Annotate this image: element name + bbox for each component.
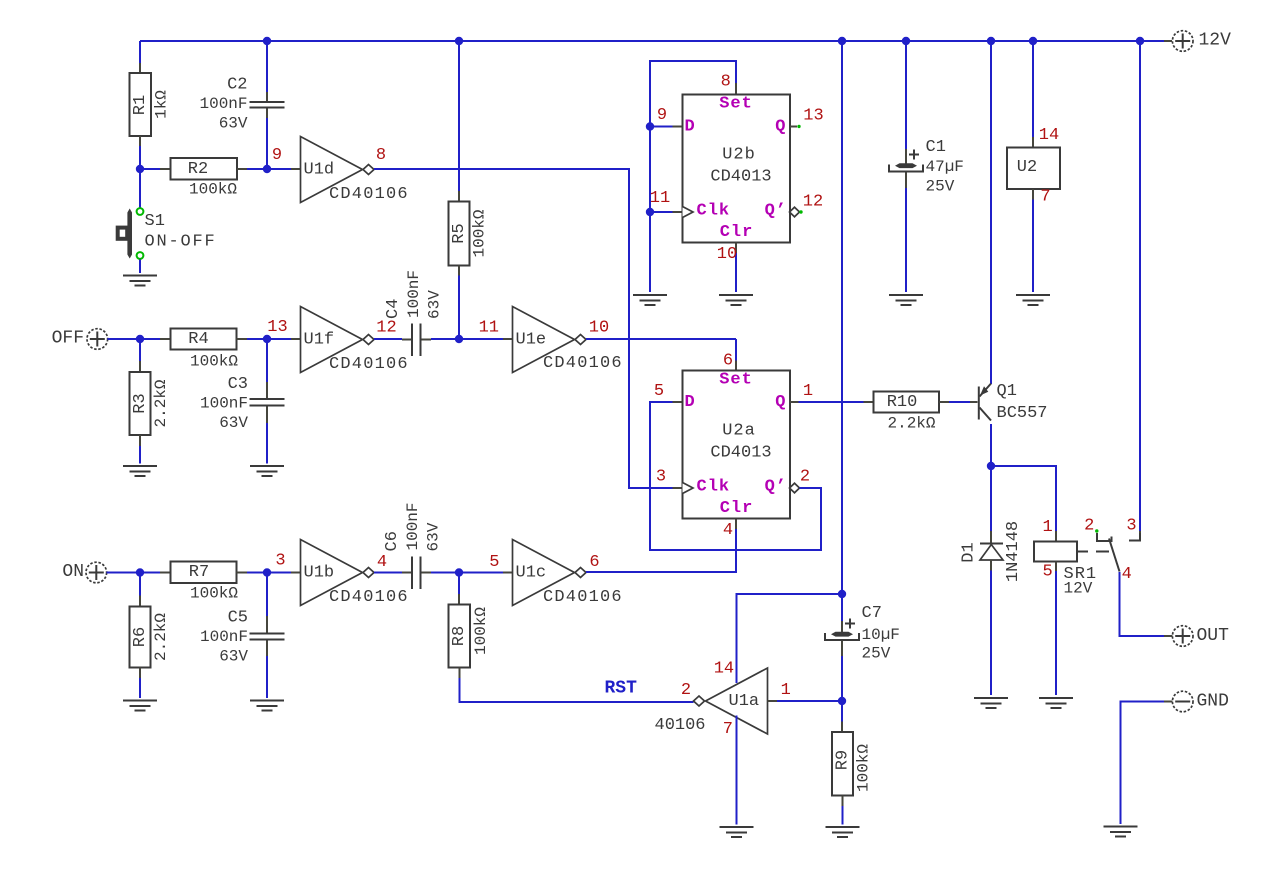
ground below SR1 coil — [1039, 698, 1073, 708]
svg-text:C5: C5 — [228, 609, 248, 628]
wire C1 top drop — [905, 41, 907, 149]
svg-text:13: 13 — [803, 107, 823, 126]
junction node A (R1/R2/S1) — [136, 165, 144, 173]
capacitor C4 — [384, 270, 444, 356]
pin 11 label U2b — [650, 189, 670, 208]
wire U1a pin 1 to node RC — [777, 700, 842, 702]
svg-text:25V: 25V — [862, 645, 891, 663]
pin 8 label U1d — [376, 146, 386, 165]
label ON — [62, 562, 84, 582]
wire U1b output to C6 — [374, 572, 402, 574]
svg-text:13: 13 — [267, 318, 287, 337]
junction Q1 emitter drop — [987, 37, 995, 45]
wire relay pin 4 to OUT — [1120, 572, 1165, 636]
junction C1 top — [902, 37, 910, 45]
svg-text:RST: RST — [605, 679, 638, 699]
IC power block U2 — [1007, 137, 1060, 200]
svg-text:100kΩ: 100kΩ — [189, 181, 237, 199]
svg-text:100nF: 100nF — [200, 628, 248, 646]
svg-text:D: D — [685, 118, 696, 137]
label GND — [1197, 692, 1229, 712]
pin 4 label SR1 — [1122, 565, 1132, 584]
pin 4 label U1b — [377, 553, 387, 572]
svg-text:R3: R3 — [131, 393, 150, 413]
svg-text:2: 2 — [1084, 517, 1094, 536]
pin 9 label U1d — [272, 146, 282, 165]
svg-text:100nF: 100nF — [404, 502, 422, 550]
svg-text:Clr: Clr — [720, 223, 754, 242]
svg-text:100nF: 100nF — [405, 270, 423, 318]
svg-text:7: 7 — [723, 720, 733, 739]
svg-text:S1: S1 — [145, 212, 165, 231]
wire +12V rail horizontal — [140, 40, 1164, 42]
svg-text:U1e: U1e — [516, 331, 547, 350]
svg-text:11: 11 — [650, 189, 670, 208]
wire U1e pin 10 to U2a set — [586, 339, 736, 361]
svg-text:1: 1 — [1042, 518, 1052, 537]
svg-text:C1: C1 — [926, 138, 946, 157]
svg-text:25V: 25V — [926, 178, 955, 196]
pin 14 label U2 — [1039, 126, 1059, 145]
connector GND — [1164, 691, 1193, 712]
svg-text:100kΩ: 100kΩ — [190, 585, 238, 603]
svg-text:Set: Set — [719, 371, 753, 390]
label 12V — [1199, 31, 1232, 51]
wire ON to node C — [107, 572, 140, 574]
ground below D1 — [974, 698, 1008, 708]
svg-text:3: 3 — [656, 468, 666, 487]
svg-text:GND: GND — [1197, 692, 1229, 712]
wire C6 to node 5 — [431, 572, 459, 574]
svg-text:9: 9 — [657, 106, 667, 125]
inverter U1c — [503, 540, 623, 608]
svg-text:Clk: Clk — [697, 478, 731, 497]
resistor R4 — [140, 329, 247, 371]
capacitor C7 — [825, 604, 900, 663]
pin 2 label U2a — [800, 468, 810, 487]
svg-text:Clr: Clr — [720, 499, 754, 518]
junction C2 top — [263, 37, 271, 45]
wire U1a pin 7 to ground — [736, 716, 738, 825]
pin 10 label U1e — [589, 319, 609, 338]
wire U2b clr to ground — [735, 243, 737, 293]
resistor R7 — [140, 562, 247, 603]
connector OFF — [87, 329, 108, 350]
svg-text:R5: R5 — [450, 223, 469, 243]
svg-text:C4: C4 — [384, 299, 403, 319]
svg-text:1: 1 — [781, 681, 791, 700]
junction C7 branch — [838, 37, 846, 45]
pin 5 label SR1 — [1042, 563, 1052, 582]
pin 5 label U2a — [654, 382, 664, 401]
ground below C3 — [250, 466, 284, 476]
pin 8 label U2b — [721, 73, 731, 92]
capacitor C2 — [199, 76, 284, 133]
wire U1b input — [267, 572, 291, 574]
wire C1 to ground — [905, 188, 907, 292]
svg-text:2.2kΩ: 2.2kΩ — [887, 415, 935, 433]
node 12V rail / R1 drop — [139, 41, 141, 63]
svg-text:R4: R4 — [188, 330, 208, 349]
junction node 13 (R4/C3/U1f) — [263, 335, 271, 343]
svg-text:2.2kΩ: 2.2kΩ — [152, 613, 170, 661]
pin 6 label U2a — [723, 352, 733, 371]
inverter U1e — [503, 307, 623, 374]
capacitor C3 — [200, 339, 285, 464]
svg-text:C7: C7 — [862, 604, 882, 623]
wire RST net R8 to U1a input — [460, 678, 694, 702]
svg-text:Q: Q — [775, 393, 786, 412]
junction relay pin 3 drop — [1136, 37, 1144, 45]
wire U2a feedback Q' to D — [650, 402, 821, 550]
svg-text:14: 14 — [714, 659, 734, 678]
svg-text:2: 2 — [681, 681, 691, 700]
svg-text:CD40106: CD40106 — [329, 355, 409, 374]
pin 5 label U1c — [489, 553, 499, 572]
wire U1a pin 14 supply — [737, 594, 843, 683]
svg-text:6: 6 — [589, 553, 599, 572]
wire U2b set loop — [650, 61, 736, 292]
svg-text:100kΩ: 100kΩ — [472, 607, 490, 655]
pin 12 bubble U2b — [790, 207, 803, 217]
wire U2 to ground — [1032, 200, 1034, 293]
wire R5 bottom to node 11 — [458, 276, 460, 340]
svg-text:U1f: U1f — [304, 331, 335, 350]
svg-text:Clk: Clk — [697, 202, 731, 221]
ground below R3 — [123, 466, 157, 476]
svg-text:7: 7 — [1040, 188, 1050, 207]
svg-text:Q’: Q’ — [765, 478, 787, 497]
svg-text:U1d: U1d — [304, 161, 335, 180]
label RST — [605, 679, 638, 699]
wire U1c input — [459, 572, 503, 574]
svg-text:CD4013: CD4013 — [710, 168, 771, 187]
wire U2a Q output — [790, 401, 864, 403]
svg-text:U1c: U1c — [516, 564, 547, 583]
pin 12 label U2b — [803, 193, 823, 212]
svg-text:63V: 63V — [219, 648, 248, 666]
svg-text:8: 8 — [721, 73, 731, 92]
junction node 11 (R5/C4/U1e) — [455, 335, 463, 343]
resistor R8 — [449, 573, 490, 679]
pin 11 label U1e — [479, 319, 499, 338]
pin 1 label SR1 — [1042, 518, 1052, 537]
svg-text:2.2kΩ: 2.2kΩ — [152, 379, 170, 427]
wire Q1 collector — [990, 424, 992, 466]
resistor R2 — [160, 158, 247, 199]
resistor R1 — [130, 63, 171, 146]
svg-text:OUT: OUT — [1197, 626, 1230, 646]
pin 7 label U1a — [723, 720, 733, 739]
svg-text:1kΩ: 1kΩ — [152, 90, 170, 119]
svg-text:R10: R10 — [887, 393, 918, 412]
wire R5 top drop — [458, 41, 460, 191]
wire collector to relay coil — [991, 466, 1056, 531]
transistor Q1 BC557 — [970, 382, 1048, 423]
svg-text:Q1: Q1 — [997, 382, 1017, 401]
junction node C (ON/R6/R7) — [136, 568, 144, 576]
svg-text:11: 11 — [479, 319, 499, 338]
wire U2b D pin — [650, 126, 673, 128]
pin 12 label U1f — [376, 319, 396, 338]
ground below U1a — [720, 827, 754, 837]
pin 3 label U2a — [656, 468, 666, 487]
svg-text:12: 12 — [376, 319, 396, 338]
wire R10 to Q1 base — [949, 401, 970, 403]
relay SR1 blade — [1109, 539, 1120, 572]
wire 12V drop to C7 — [841, 41, 843, 621]
junction Q1 collector node — [987, 462, 995, 470]
junction node 3 (R7/C5/U1b) — [263, 568, 271, 576]
junction node 9 (C2/R2/U1d) — [263, 165, 271, 173]
resistor R5 — [449, 191, 489, 276]
svg-text:1: 1 — [803, 382, 813, 401]
svg-text:63V: 63V — [219, 414, 248, 432]
inverter U1f — [291, 307, 409, 375]
wire SR1 coil to ground — [1055, 571, 1057, 695]
wire U2 pin 14 drop — [1032, 41, 1034, 137]
connector ON — [86, 562, 107, 583]
svg-text:CD40106: CD40106 — [543, 588, 623, 607]
svg-text:5: 5 — [1042, 563, 1052, 582]
svg-text:63V: 63V — [219, 115, 248, 133]
svg-text:D: D — [685, 393, 696, 412]
wire OFF to node B — [108, 338, 140, 340]
connector OUT — [1164, 626, 1193, 647]
svg-text:R1: R1 — [131, 95, 150, 115]
pin 2 label SR1 — [1084, 517, 1094, 536]
ground U2b input net — [633, 295, 667, 305]
ground below GND connector — [1104, 827, 1138, 837]
svg-text:ON-OFF: ON-OFF — [145, 233, 217, 252]
svg-text:CD40106: CD40106 — [543, 354, 623, 373]
svg-text:CD40106: CD40106 — [329, 588, 409, 607]
ground below C1 — [889, 295, 923, 305]
svg-text:ON: ON — [62, 562, 84, 582]
wire R7 to node 3 — [247, 572, 267, 574]
wire U1f output to C4 — [374, 338, 402, 340]
svg-text:63V: 63V — [426, 290, 444, 319]
resistor R6 — [130, 573, 170, 699]
ground below C5 — [250, 701, 284, 711]
wire node A to R2 — [140, 168, 160, 170]
pin 10 label U2b — [717, 245, 737, 264]
junction R5 top — [455, 37, 463, 45]
svg-text:8: 8 — [376, 146, 386, 165]
pin 9 label U2b — [657, 106, 667, 125]
relay SR1 contact pin 2 — [1095, 529, 1111, 541]
resistor R9 — [832, 701, 872, 825]
switch S1 ON-OFF — [118, 169, 217, 273]
svg-text:10: 10 — [717, 245, 737, 264]
resistor R3 — [130, 339, 170, 464]
wire U1f input — [267, 338, 291, 340]
pin 6 label U1c — [589, 553, 599, 572]
wire C2 top drop — [266, 41, 268, 92]
svg-text:10: 10 — [589, 319, 609, 338]
svg-text:R9: R9 — [833, 750, 852, 770]
svg-text:100kΩ: 100kΩ — [854, 744, 872, 792]
ground below R6 — [123, 701, 157, 711]
svg-text:U1a: U1a — [729, 692, 760, 711]
pin 13 label U2b — [803, 107, 823, 126]
svg-text:2: 2 — [800, 468, 810, 487]
relay SR1 contact pin 3 — [1129, 531, 1140, 541]
svg-text:100nF: 100nF — [200, 395, 248, 413]
svg-text:100nF: 100nF — [199, 95, 247, 113]
svg-text:63V: 63V — [425, 522, 443, 551]
svg-text:3: 3 — [275, 552, 285, 571]
pin 13 stub U2b — [790, 125, 801, 128]
ground below R9 — [826, 827, 860, 837]
svg-text:5: 5 — [489, 553, 499, 572]
pin 4 label U2a — [723, 521, 733, 540]
svg-text:12V: 12V — [1064, 580, 1093, 598]
capacitor C5 — [200, 573, 285, 699]
svg-text:U2: U2 — [1017, 158, 1037, 177]
wire C2 bottom to node 9 — [266, 118, 268, 169]
svg-text:Q’: Q’ — [765, 202, 787, 221]
svg-text:1N4148: 1N4148 — [1004, 521, 1023, 582]
pin 7 label U2 — [1040, 188, 1050, 207]
junction U2 power drop — [1029, 37, 1037, 45]
junction node RC (C7/R9/U1a in) — [838, 697, 846, 705]
wire U1e input — [459, 338, 503, 340]
label OUT — [1197, 626, 1230, 646]
inverter U1d — [291, 137, 409, 205]
svg-text:R7: R7 — [189, 563, 209, 582]
pin 2 bubble U2a — [790, 483, 800, 493]
label OFF — [52, 329, 84, 349]
wire Q1 emitter drop — [990, 41, 992, 384]
svg-text:10µF: 10µF — [862, 626, 900, 644]
wire GND connector to ground — [1121, 702, 1165, 825]
wire R4 to node 13 — [247, 338, 267, 340]
pin 1 label U2a — [803, 382, 813, 401]
svg-text:12: 12 — [803, 193, 823, 212]
wire U2b clk pin — [650, 211, 673, 213]
pin 3 label U1b — [275, 552, 285, 571]
svg-text:R6: R6 — [131, 627, 150, 647]
flip-flop U2b CD4013 — [673, 83, 791, 243]
wire R2 to node 9 — [247, 168, 267, 170]
junction U1a VDD tap — [838, 590, 846, 598]
ground U2b clr — [719, 295, 753, 305]
wire U1d pin 8 to U2a clk — [374, 169, 673, 488]
svg-text:4: 4 — [377, 553, 387, 572]
svg-text:OFF: OFF — [52, 329, 84, 349]
svg-text:U2b: U2b — [722, 146, 756, 165]
svg-text:5: 5 — [654, 382, 664, 401]
junction node B (OFF/R3/R4) — [136, 335, 144, 343]
pin 3 label SR1 — [1126, 517, 1136, 536]
svg-text:14: 14 — [1039, 126, 1059, 145]
svg-text:4: 4 — [723, 521, 733, 540]
svg-text:C2: C2 — [227, 76, 247, 95]
svg-text:47µF: 47µF — [926, 158, 964, 176]
svg-text:CD4013: CD4013 — [710, 444, 771, 463]
svg-text:C3: C3 — [228, 375, 248, 394]
svg-text:BC557: BC557 — [997, 404, 1048, 423]
svg-text:R2: R2 — [188, 160, 208, 179]
svg-text:12V: 12V — [1199, 31, 1232, 51]
junction node 5 (C6/R8/U1c) — [455, 568, 463, 576]
svg-text:U1b: U1b — [304, 564, 335, 583]
pin 1 label U1a — [781, 681, 791, 700]
wire relay pin 3 drop — [1139, 41, 1141, 531]
flip-flop U2a CD4013 — [673, 361, 791, 530]
ground below S1 — [123, 276, 157, 286]
svg-text:40106: 40106 — [655, 716, 706, 735]
wire U1c pin 6 to U2a clr — [586, 529, 736, 572]
svg-text:100kΩ: 100kΩ — [470, 209, 488, 257]
wire C7 to node RST-RC — [841, 656, 843, 701]
junction U2b D pin — [646, 122, 654, 130]
svg-text:Q: Q — [775, 118, 786, 137]
pin 2 label U1a — [681, 681, 691, 700]
wire R1 to node A — [139, 146, 141, 169]
wire C4 to node 11 — [431, 338, 459, 340]
svg-text:4: 4 — [1122, 565, 1132, 584]
svg-text:CD40106: CD40106 — [329, 185, 409, 204]
wire collector to D1 — [990, 466, 992, 531]
pin 14 label U1a — [714, 659, 734, 678]
junction U2b clk pin — [646, 208, 654, 216]
capacitor C1 — [889, 138, 964, 196]
pin 13 label U1f — [267, 318, 287, 337]
capacitor C6 — [383, 502, 443, 589]
wire D1 to ground — [990, 571, 992, 696]
connector 12V — [1164, 31, 1193, 52]
svg-text:6: 6 — [723, 352, 733, 371]
svg-text:Set: Set — [719, 95, 753, 114]
svg-text:100kΩ: 100kΩ — [190, 353, 238, 371]
diode D1 1N4148 — [960, 521, 1024, 582]
inverter U1a — [655, 668, 778, 735]
svg-text:9: 9 — [272, 146, 282, 165]
svg-text:R8: R8 — [450, 626, 469, 646]
svg-text:C6: C6 — [383, 531, 402, 551]
wire U1d input — [267, 168, 291, 170]
ground below U2 — [1016, 295, 1050, 305]
relay SR1 coil — [1034, 531, 1109, 598]
resistor R10 — [864, 392, 950, 433]
svg-text:U2a: U2a — [722, 422, 756, 441]
inverter U1b — [291, 540, 409, 608]
svg-text:D1: D1 — [960, 542, 979, 562]
svg-text:3: 3 — [1126, 517, 1136, 536]
